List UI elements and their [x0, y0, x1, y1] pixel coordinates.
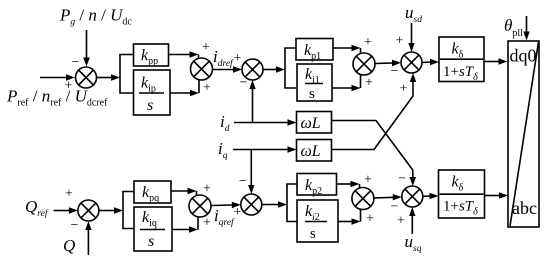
wire usq up into J5q: [409, 207, 415, 234]
svg-text:s: s: [309, 86, 315, 102]
svg-text:+: +: [202, 40, 210, 55]
block dq0/abc transform: [508, 41, 539, 227]
svg-text:−: −: [71, 218, 79, 233]
block kpq: [134, 181, 171, 204]
wire kp1 output into J4: [333, 45, 361, 54]
block kiq/s: [134, 207, 172, 251]
svg-text:+: +: [364, 35, 372, 50]
wire J4q to J5q: [374, 194, 402, 200]
svg-text:dq0: dq0: [510, 46, 537, 66]
svg-text:s: s: [310, 226, 316, 242]
wire kdelta-q to abc: [485, 192, 509, 198]
wire Qref into J1q: [54, 207, 78, 213]
summing junction J5: [401, 52, 422, 73]
summing junction J5q: [402, 186, 423, 207]
wire wL1 output crossing down to J5q: [332, 121, 417, 187]
wire Pref input into J1: [40, 74, 75, 80]
svg-text:Pg / n / Udc: Pg / n / Udc: [59, 6, 132, 28]
svg-text:Q: Q: [63, 236, 75, 255]
label Pref / nref / Udcref: [6, 87, 108, 109]
svg-text:−: −: [398, 172, 406, 187]
block kip/s: [134, 70, 171, 115]
summing junction J1: [76, 67, 97, 88]
svg-text:+: +: [366, 212, 374, 227]
wire J4 to J5: [375, 60, 401, 66]
wire kiq output into J2q: [172, 217, 198, 233]
summing junction J4q: [352, 188, 374, 210]
svg-text:−: −: [239, 174, 247, 189]
wire kip output into J2: [170, 80, 199, 97]
svg-text:+: +: [203, 81, 211, 96]
wire ki1 output into J4: [332, 75, 361, 92]
block ki2/s: [297, 200, 338, 242]
wire kp2 output into J4q: [337, 181, 360, 189]
svg-text:s: s: [147, 97, 153, 114]
block ki1/s: [297, 64, 332, 102]
svg-text:+: +: [65, 79, 73, 94]
block kdelta-d: [439, 37, 484, 83]
svg-text:+: +: [397, 214, 405, 229]
summing junction J3: [242, 59, 263, 80]
wire J2q to J3q: [211, 202, 241, 208]
block kdelta-q: [439, 170, 485, 218]
wire theta-pll into dq0 block: [523, 16, 529, 41]
svg-text:+: +: [234, 51, 242, 66]
svg-text:+: +: [203, 216, 211, 231]
svg-text:ωL: ωL: [301, 115, 321, 132]
wire usd down into J5: [408, 23, 414, 52]
block wL1: [297, 112, 332, 134]
svg-text:+: +: [396, 34, 404, 49]
block kpp: [134, 44, 169, 67]
wire iq to wL2 (with branch down): [233, 146, 297, 152]
svg-text:+: +: [203, 182, 211, 197]
summing junction J4: [353, 53, 375, 75]
summing junction J2: [191, 58, 213, 80]
wire kpp output into J2: [169, 51, 199, 59]
wire Pg input (down into J1): [83, 30, 90, 67]
block kp1: [296, 39, 333, 63]
svg-text:+: +: [364, 173, 372, 188]
svg-text:−: −: [72, 55, 80, 70]
label Pg / n / Udc: [59, 6, 132, 28]
wire iq branch down into J3q: [248, 150, 254, 195]
block wL2: [297, 140, 332, 162]
wire Q up into J1q: [85, 221, 91, 255]
svg-text:ωL: ωL: [301, 143, 321, 160]
svg-text:+: +: [65, 187, 73, 202]
svg-text:−: −: [391, 200, 399, 215]
svg-text:+: +: [365, 76, 373, 91]
svg-text:s: s: [148, 233, 154, 250]
svg-text:abc: abc: [512, 198, 537, 218]
wire J5 to kdelta-d block: [422, 59, 439, 65]
wire J1q output to branch bracket: [99, 192, 134, 229]
wire kdelta-d to dq0: [484, 58, 508, 64]
svg-text:−: −: [391, 64, 399, 79]
wire wL2 output crossing up to J5: [332, 73, 417, 150]
wire J2 to J3: [213, 66, 243, 72]
wire kpq output into J2q: [171, 188, 197, 196]
block kp2: [297, 174, 337, 198]
wire ki2 output into J4q: [338, 209, 361, 225]
wire id to wL1 (with branch up): [234, 119, 297, 125]
wire J5q to kdelta-q: [423, 193, 439, 199]
wire J1 output to branch bracket: [97, 55, 134, 94]
summing junction J3q: [241, 194, 262, 215]
summing junction J1q: [78, 200, 99, 221]
wire id branch up into J3: [249, 80, 255, 123]
wire J3q output to branch bracket: [262, 184, 297, 222]
wire J3 output to branch bracket: [263, 48, 296, 88]
svg-text:+: +: [400, 82, 408, 97]
summing junction J2q: [189, 195, 211, 217]
